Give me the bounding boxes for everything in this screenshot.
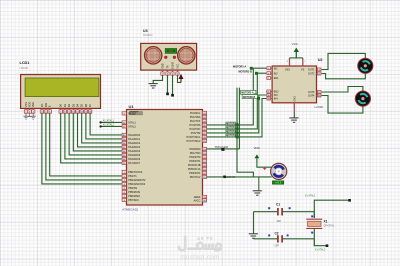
ultrasonic sensor U3 body xyxy=(141,43,197,70)
wire MOTOR2-A U1 PC5 to U2 IN3 xyxy=(207,95,266,133)
svg-text:PC1/SDA: PC1/SDA xyxy=(190,116,201,119)
svg-text:888: 888 xyxy=(169,50,174,53)
svg-text:PA6/ADC6: PA6/ADC6 xyxy=(128,158,141,161)
U3 indicator LED left xyxy=(164,56,167,59)
svg-text:VCC: VCC xyxy=(292,42,298,46)
wire ground riser between C1 and C2 xyxy=(253,212,255,234)
U3 pin name labels GND TR ECHO VCC xyxy=(163,62,180,69)
svg-text:OUT1: OUT1 xyxy=(308,69,315,72)
motor M2 xyxy=(355,91,370,106)
U2 VSS VS top pin stubs xyxy=(286,58,305,66)
U3 right transducer xyxy=(178,47,195,64)
svg-text:D3: D3 xyxy=(71,103,75,107)
U1 left pin names xyxy=(128,113,146,203)
svg-text:VS: VS xyxy=(301,69,305,72)
svg-text:VEE: VEE xyxy=(31,102,35,107)
svg-text:PA3/ADC3: PA3/ADC3 xyxy=(128,146,141,149)
wire U3 TR pin down xyxy=(167,75,169,93)
wire LCD1 E to U1 PB1 xyxy=(50,113,122,176)
wire junction to servo motor lower terminal xyxy=(253,176,271,178)
svg-text:VDD: VDD xyxy=(28,102,32,108)
wire TRIGGER U1 PD0 to riser xyxy=(207,148,239,150)
U3 pin stubs and number boxes xyxy=(161,70,179,76)
svg-text:GND: GND xyxy=(294,96,297,102)
U3 indicator LED right xyxy=(173,56,176,59)
U3 distance readout display xyxy=(165,49,177,54)
svg-text:PD0/RXD: PD0/RXD xyxy=(190,148,201,151)
svg-text:33P: 33P xyxy=(277,220,282,223)
svg-text:MOTOR1-A: MOTOR1-A xyxy=(233,65,246,68)
svg-text:PD1/TXD: PD1/TXD xyxy=(190,152,201,155)
svg-text:MOTOR2-B: MOTOR2-B xyxy=(243,97,256,99)
power terminal arrow at U3 VCC xyxy=(179,74,184,83)
svg-text:PA0/ADC0: PA0/ADC0 xyxy=(128,134,141,137)
wire U3 VCC pin to power terminal xyxy=(178,75,182,82)
svg-text:U1: U1 xyxy=(129,104,135,109)
LCD1 pin name labels VSS VDD VEE RS RW E D0-D7 xyxy=(24,102,92,108)
LCD module LCD1 body xyxy=(21,75,101,109)
svg-text:PA2/ADC2: PA2/ADC2 xyxy=(128,142,141,145)
svg-text:EN1: EN1 xyxy=(274,77,279,80)
svg-text:CRYSTAL: CRYSTAL xyxy=(324,225,335,228)
wire LCD1 RW to U1 PB2 xyxy=(46,113,122,180)
svg-text:ECHO: ECHO xyxy=(227,175,236,179)
svg-text:PD7/OC2: PD7/OC2 xyxy=(190,176,201,179)
svg-text:VCC: VCC xyxy=(178,63,180,68)
U3 left transducer xyxy=(145,47,162,64)
U2 left pin names IN1 IN2 EN1 EN2 IN3 IN4 xyxy=(274,67,279,100)
wire LCD1 RS to U1 PB3 xyxy=(42,113,122,184)
U1 right pin stubs and number boxes xyxy=(202,111,206,202)
wire MOTOR1-B U1 PC4 to U2 IN2 xyxy=(207,73,266,129)
svg-text:PB2/AIN0/INT2: PB2/AIN0/INT2 xyxy=(128,179,146,182)
net label ECHO xyxy=(223,175,236,179)
wire MOTOR2-B U1 PC6 to U2 IN4 xyxy=(207,99,266,137)
svg-text:PA1/ADC1: PA1/ADC1 xyxy=(128,138,141,141)
svg-text:U2: U2 xyxy=(318,58,323,62)
svg-text:IN2: IN2 xyxy=(274,72,278,75)
svg-text:PB4/SS: PB4/SS xyxy=(128,187,137,190)
U1 left pin stubs and number boxes xyxy=(122,112,126,202)
U2 top pin names VSS VS xyxy=(285,69,305,72)
wire U2 OUT3 to motor M2 top xyxy=(322,87,363,93)
junction dot ECHO wire end xyxy=(171,94,174,97)
svg-text:ATMEGA32: ATMEGA32 xyxy=(122,208,138,212)
selection handle dots C2 xyxy=(268,234,288,236)
wire crystal bottom node xyxy=(314,228,327,245)
svg-text:AVCC: AVCC xyxy=(194,200,201,203)
svg-text:VSS: VSS xyxy=(285,69,290,72)
power terminal VCC arrow xyxy=(294,48,299,58)
LCD1 VEE ground symbol xyxy=(31,113,36,119)
LCD1 VDD power symbol xyxy=(28,113,32,116)
svg-text:PD3/INT1: PD3/INT1 xyxy=(189,160,201,163)
wire bus LCD1 D7-D0 to U1 PA0-PA7 xyxy=(61,113,122,163)
ground symbol below servo wire xyxy=(253,177,262,195)
svg-text:D1: D1 xyxy=(63,103,67,107)
svg-text:+88.8: +88.8 xyxy=(275,182,282,185)
net label X1-XTAL2 at U1 XTAL2 pin xyxy=(99,124,122,128)
svg-text:PB3/AIN1/OC0: PB3/AIN1/OC0 xyxy=(128,183,145,186)
svg-text:MOTOR1-B: MOTOR1-B xyxy=(239,71,252,74)
svg-text:LM016L: LM016L xyxy=(20,67,30,70)
svg-text:X1-XTAL2: X1-XTAL2 xyxy=(315,248,326,251)
selection handle dots C1 xyxy=(268,207,290,209)
svg-text:mostaql.com: mostaql.com xyxy=(180,254,219,261)
net label MOTOR1-B at U2 IN2 xyxy=(239,71,259,75)
net label MOTOR1-A at U2 IN1 xyxy=(233,65,253,69)
wire riser TRIGGER vertical xyxy=(238,88,240,149)
U2 left pin stubs and number boxes xyxy=(266,67,272,101)
svg-text:LCD1: LCD1 xyxy=(20,61,30,65)
svg-text:PB6/MISO: PB6/MISO xyxy=(128,195,140,198)
net label MOTOR2-B at U2 IN4 xyxy=(242,95,260,101)
svg-text:U3: U3 xyxy=(143,29,148,33)
svg-text:XTAL1: XTAL1 xyxy=(128,122,136,125)
U2 right pin names OUT1 OUT2 OUT3 OUT4 xyxy=(308,69,315,98)
svg-text:PB7/SCK: PB7/SCK xyxy=(128,199,139,202)
LCD1 VSS ground symbol xyxy=(23,113,28,119)
svg-text:D7: D7 xyxy=(88,103,92,107)
svg-text:PC6/TOSC1: PC6/TOSC1 xyxy=(187,136,201,139)
capacitor C1 plates xyxy=(278,208,282,216)
svg-text:D2: D2 xyxy=(67,103,71,107)
svg-text:X1-XTAL1: X1-XTAL1 xyxy=(305,195,316,198)
svg-text:PA4/ADC4: PA4/ADC4 xyxy=(128,150,141,153)
svg-text:D5: D5 xyxy=(80,103,84,107)
servo plus polarity mark xyxy=(263,167,266,170)
ground symbol at capacitors xyxy=(249,233,258,235)
microcontroller U1 ATmega32 body xyxy=(127,110,203,206)
svg-text:RS: RS xyxy=(40,103,44,107)
U1 RESET highlight box xyxy=(129,112,142,115)
junction dot crystal top right xyxy=(348,199,351,202)
svg-text:L293D: L293D xyxy=(315,105,325,109)
svg-text:PC2/TCK: PC2/TCK xyxy=(190,120,201,123)
svg-text:16: 16 xyxy=(286,61,288,63)
svg-text:ECHO: ECHO xyxy=(173,62,175,69)
net label X1-XTAL1 at U1 XTAL1 pin xyxy=(99,120,122,124)
svg-text:TR: TR xyxy=(168,65,170,68)
capacitor C2 plates xyxy=(278,235,282,242)
svg-text:8: 8 xyxy=(304,61,305,63)
svg-text:PC7/TOSC2: PC7/TOSC2 xyxy=(187,140,201,143)
svg-text:PD6/ICP1: PD6/ICP1 xyxy=(189,172,201,175)
svg-text:PB1/T1: PB1/T1 xyxy=(128,175,137,178)
wire C2 row xyxy=(254,239,315,246)
LCD1 pin stubs and pin number boxes 1-14 xyxy=(24,108,92,113)
wire ECHO U1 PD7 to junction xyxy=(207,176,253,178)
motor driver U2 L293D body xyxy=(272,66,316,103)
selection handle dots X1 xyxy=(311,215,313,233)
svg-text:PD2/INT0: PD2/INT0 xyxy=(189,156,201,159)
wire crystal top node xyxy=(314,200,349,218)
svg-text:22P: 22P xyxy=(275,245,280,248)
wire VCC bridge above U2 xyxy=(290,57,303,59)
svg-text:PC3/TMS: PC3/TMS xyxy=(190,124,201,127)
junction dot crystal bottom right xyxy=(326,244,329,247)
svg-text:PB5/MOSI: PB5/MOSI xyxy=(128,191,140,194)
ground symbol below U2 xyxy=(289,117,298,119)
svg-text:RW: RW xyxy=(44,102,48,107)
svg-text:PD5/OC1A: PD5/OC1A xyxy=(188,168,201,171)
svg-text:GND: GND xyxy=(163,63,165,68)
svg-text:PC5/TDI: PC5/TDI xyxy=(191,132,201,135)
U1 right pin names xyxy=(187,112,201,203)
svg-text:IN4: IN4 xyxy=(274,98,278,101)
net label boxes MOTOR1-A MOTOR1-B MOTOR2-A MOTOR2-B at U1 side xyxy=(226,122,239,138)
wire MOTOR1-A U1 PC3 to U2 IN1 xyxy=(207,68,266,125)
wire U3 GND pin to ground xyxy=(153,75,162,83)
wire VDD to servo motor upper terminal xyxy=(257,161,272,167)
motor M3 speed readout display xyxy=(272,181,283,185)
svg-text:C2: C2 xyxy=(275,231,279,235)
junction dot TR wire end xyxy=(166,93,169,96)
motor M3 servo body xyxy=(271,163,287,179)
svg-text:OUT4: OUT4 xyxy=(308,95,315,98)
svg-text:XTAL2: XTAL2 xyxy=(128,126,136,129)
power terminal VDD arrow xyxy=(255,154,260,161)
svg-text:PA5/ADC5: PA5/ADC5 xyxy=(128,154,141,157)
svg-text:PC4/TDO: PC4/TDO xyxy=(190,128,201,131)
svg-text:D6: D6 xyxy=(84,103,88,107)
crystal X1 body xyxy=(306,219,322,228)
svg-text:RESET: RESET xyxy=(128,113,137,116)
svg-text:OUT2: OUT2 xyxy=(308,73,315,76)
svg-text:IN1: IN1 xyxy=(274,67,278,70)
svg-text:C1: C1 xyxy=(276,202,280,206)
svg-text:PB0/T0/XCK: PB0/T0/XCK xyxy=(128,171,143,174)
svg-text:PA7/ADC7: PA7/ADC7 xyxy=(128,162,141,165)
watermark mostaql logo xyxy=(179,237,221,251)
U2 right pin stubs and number boxes xyxy=(317,68,323,98)
wire riser ECHO vertical xyxy=(237,88,253,177)
wire C1 row xyxy=(254,212,315,218)
wire U2 OUT1 to motor M1 top xyxy=(322,53,365,69)
svg-text:D0: D0 xyxy=(59,103,63,107)
svg-text:D4: D4 xyxy=(76,103,80,107)
U2 GND bottom pin stub xyxy=(293,103,295,112)
svg-text:E: E xyxy=(48,105,52,107)
svg-text:VSS: VSS xyxy=(24,102,28,107)
wire U3 ECHO pin down xyxy=(172,75,174,95)
svg-text:VDD: VDD xyxy=(254,146,260,150)
net label TRIGGER xyxy=(215,145,230,151)
LCD1 green screen xyxy=(25,78,99,97)
ground symbol below U3 xyxy=(149,83,158,85)
wire U2 GND to ground xyxy=(293,112,295,118)
svg-text:HCSR04: HCSR04 xyxy=(143,34,153,37)
svg-text:PC0/SCL: PC0/SCL xyxy=(190,112,201,115)
wire U2 OUT4 to motor M2 bottom xyxy=(322,96,363,114)
net label MOTOR2-A at U2 IN3 xyxy=(241,90,257,96)
wire U2 OUT2 to motor M1 bottom xyxy=(322,73,365,78)
U1 RESET overline xyxy=(130,110,139,112)
svg-text:PD4/OC1B: PD4/OC1B xyxy=(188,164,201,167)
svg-text:X1: X1 xyxy=(324,220,328,224)
motor M1 xyxy=(358,58,373,73)
